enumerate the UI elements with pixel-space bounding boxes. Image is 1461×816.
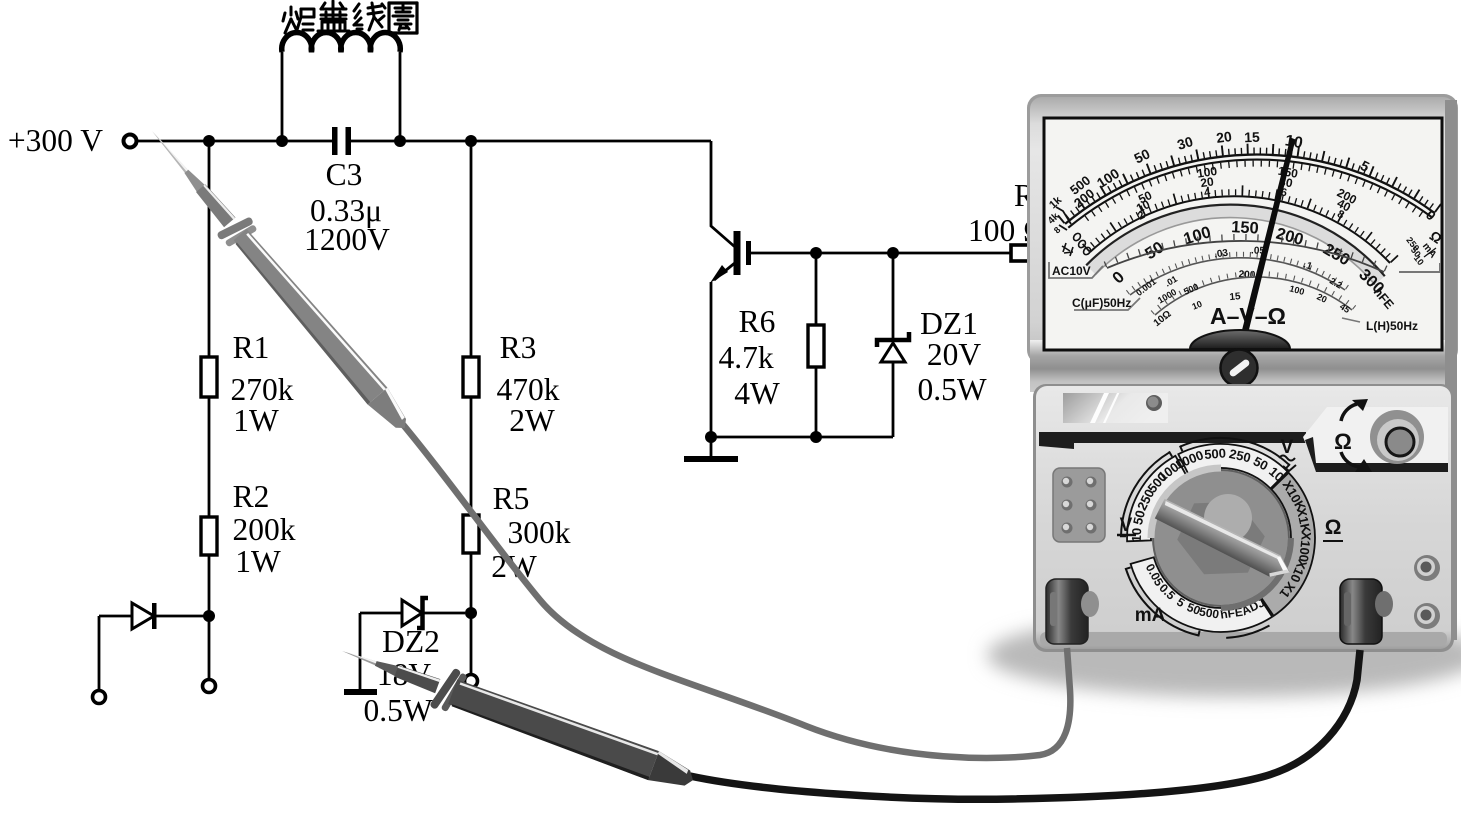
label cooker coil (hanzi): [290, 7, 293, 15]
ground G2: [344, 689, 377, 695]
svg-text:300k: 300k: [508, 515, 571, 550]
ground G1: [710, 437, 713, 458]
black test lead wire from probe to meter + jack: [690, 650, 1360, 799]
svg-text:1W: 1W: [235, 544, 281, 579]
selector knob: [1153, 470, 1289, 606]
junction node C: [394, 135, 406, 147]
junction node J: [810, 431, 822, 443]
wire DZ1 top: [892, 253, 895, 340]
resistor R2: [201, 517, 217, 555]
svg-text:R1: R1: [233, 330, 270, 365]
svg-text:500: 500: [1204, 445, 1227, 461]
multimeter lower housing: [1033, 384, 1454, 652]
dark band: [1039, 432, 1306, 443]
junction node B: [276, 135, 288, 147]
junction node F: [465, 607, 477, 619]
svg-text:R5: R5: [493, 481, 530, 516]
wire emitter bus: [711, 436, 893, 439]
wire R3 branch top: [470, 141, 473, 357]
svg-text:C3: C3: [326, 157, 363, 192]
junction node A: [203, 135, 215, 147]
wire R1-R2: [208, 397, 211, 517]
plus jack plug (black lead): [1340, 579, 1382, 644]
svg-text:20V: 20V: [927, 337, 982, 372]
wire diode D1 branch: [99, 615, 209, 618]
svg-text:Ω: Ω: [1334, 429, 1352, 454]
terminal +300V: [124, 135, 137, 148]
svg-text:20: 20: [1215, 128, 1233, 146]
svg-text:0.5W: 0.5W: [363, 693, 432, 728]
wire DZ2 ground leg: [359, 613, 362, 692]
COM jack plug (gray lead): [1046, 579, 1088, 644]
svg-text:2W: 2W: [509, 403, 555, 438]
resistor R5: [463, 515, 479, 553]
svg-text:15: 15: [1229, 291, 1241, 303]
resistor R3: [463, 357, 479, 397]
ohm adjust knob: [1370, 410, 1424, 464]
wire R6 bottom: [815, 367, 818, 437]
right small jack 2: [1414, 603, 1440, 629]
zener diode DZ1: [880, 333, 906, 347]
selector lever pointer: [1154, 498, 1294, 584]
black probe P2: [334, 629, 701, 802]
svg-text:270k: 270k: [231, 372, 294, 407]
junction node H: [887, 247, 899, 259]
svg-text:Ω: Ω: [1325, 516, 1342, 539]
svg-text:470k: 470k: [497, 372, 560, 407]
terminal bottom3: [465, 675, 478, 688]
wire D1 left leg: [98, 616, 101, 690]
svg-text:AC10V: AC10V: [1052, 264, 1091, 278]
zener diode DZ2: [402, 600, 422, 626]
multimeter dial face: [1044, 118, 1442, 350]
wire R1 branch top: [208, 141, 211, 357]
gray probe P1: [137, 118, 419, 440]
svg-text:15: 15: [1244, 129, 1260, 146]
svg-text:4W: 4W: [734, 376, 780, 411]
svg-text:.03: .03: [1214, 248, 1230, 261]
wire R3-R5: [470, 397, 473, 515]
svg-text:150: 150: [1231, 218, 1259, 237]
svg-text:0.5W: 0.5W: [917, 372, 986, 407]
right small jack 1: [1414, 555, 1440, 581]
svg-text:mA: mA: [1135, 605, 1166, 626]
multimeter M1 upper housing: [1027, 94, 1458, 364]
junction node D: [465, 135, 477, 147]
inductor L1 cooker coil: [282, 33, 401, 52]
svg-text:R3: R3: [500, 330, 537, 365]
svg-text:DZ2: DZ2: [382, 624, 440, 659]
svg-text:+300 V: +300 V: [8, 123, 103, 158]
wire DZ1 bottom: [892, 362, 895, 437]
junction node G: [810, 247, 822, 259]
wire gate line: [751, 252, 1011, 255]
wire coil right leg: [399, 52, 402, 141]
svg-text:DZ1: DZ1: [920, 306, 978, 341]
resistor R1: [201, 357, 217, 397]
wire R6 top: [815, 253, 818, 325]
meter needle: [1237, 138, 1296, 353]
contact hole grid: [1053, 468, 1105, 542]
svg-text:1W: 1W: [233, 403, 279, 438]
diode D1: [132, 603, 154, 629]
indicator dot: [1146, 395, 1162, 411]
svg-text:R6: R6: [739, 304, 776, 339]
wire R5 bottom: [470, 553, 473, 674]
needle pivot dome: [1190, 330, 1290, 349]
svg-text:200k: 200k: [233, 512, 296, 547]
multimeter M1 body shadow: [987, 613, 1461, 697]
svg-text:C(μF)50Hz: C(μF)50Hz: [1072, 296, 1131, 310]
capacitor C3: [332, 127, 338, 155]
svg-text:200: 200: [1238, 269, 1256, 281]
selector ring group boxes: [1178, 444, 1287, 489]
lamp window: [1063, 393, 1168, 423]
selector range ring gray omega sector: [1260, 473, 1315, 616]
svg-text:4.7k: 4.7k: [718, 340, 773, 375]
resistor R7 100 ohm: [1011, 245, 1039, 261]
svg-text:L(H)50Hz: L(H)50Hz: [1366, 319, 1418, 333]
gray test lead wire from probe to meter COM jack: [400, 421, 1070, 758]
zero adjust knob: [1221, 350, 1258, 387]
svg-text:V: V: [1120, 515, 1133, 536]
svg-text:1200V: 1200V: [304, 222, 390, 257]
IGBT Q1: [734, 231, 741, 275]
junction node E: [203, 610, 215, 622]
terminal bottom1: [203, 680, 216, 693]
junction node I: [705, 431, 717, 443]
resistor R6: [808, 325, 824, 367]
terminal bottom2: [93, 691, 106, 704]
wire emitter leg: [710, 282, 713, 437]
wire collector feed: [711, 141, 735, 247]
wire coil left leg: [281, 52, 284, 141]
wire DZ2 branch: [360, 612, 465, 615]
multimeter mid band: [1030, 340, 1455, 392]
wire R2 bottom: [208, 555, 211, 679]
ohm adjust plate: [1303, 407, 1448, 469]
wire main horizontal bus: [137, 140, 711, 143]
svg-text:R2: R2: [233, 479, 270, 514]
